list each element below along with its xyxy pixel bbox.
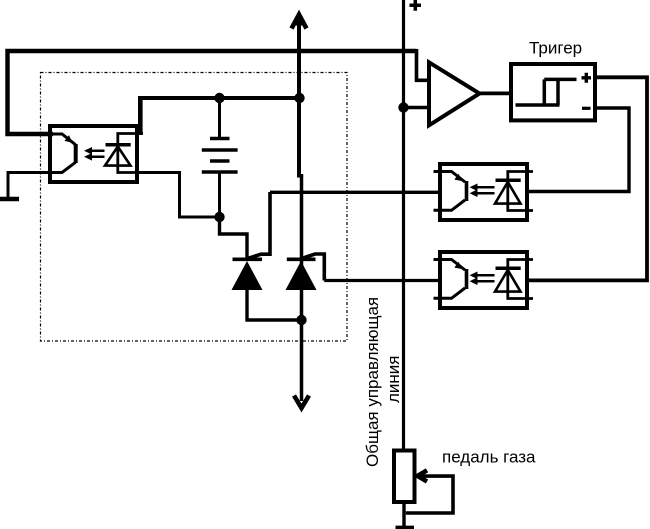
wire main vertical lower segment [300, 174, 304, 401]
wire common control line vertical rail [402, 0, 405, 450]
wire battery node to thyristor VS1 cathode [220, 216, 248, 258]
svg-text:Общая управляющая: Общая управляющая [363, 297, 382, 467]
U3 collector arrow [454, 262, 463, 270]
battery C1 top lead [218, 96, 221, 138]
potentiometer wiper arrow [418, 470, 428, 481]
U1 light arrow 1 [88, 150, 105, 153]
U3 transistor base bar [465, 269, 469, 289]
ground bottom bar [396, 526, 415, 529]
svg-text:линия: линия [384, 355, 403, 403]
U2 collector lead [434, 172, 466, 183]
wire main vertical upper segment [297, 16, 301, 178]
potentiometer bottom lead [402, 502, 405, 526]
arrow up [292, 15, 307, 29]
optocoupler U1 [44, 126, 144, 182]
U1 box [50, 126, 137, 182]
U1 diode bar [106, 143, 131, 147]
wire comparator output [479, 92, 511, 96]
op-amp comparator A1 [429, 62, 480, 125]
wire comparator bottom input [404, 106, 430, 109]
U1 collector lead [44, 134, 76, 145]
node dot A [214, 93, 224, 103]
U2 diode triangle [495, 182, 521, 204]
U2 light arrow 1 [474, 186, 495, 189]
U3 emitter lead [434, 288, 466, 298]
node dot C [214, 212, 224, 222]
U1 emitter lead [44, 162, 76, 172]
U2 light arrow 2 [474, 192, 495, 195]
optocoupler U3 [434, 252, 534, 308]
node dot D [296, 315, 306, 325]
U2 emitter lead [434, 200, 466, 210]
wire comparator top input step [417, 49, 430, 80]
wire trigger minus output to U2 diode [526, 108, 629, 192]
potentiometer R1 body [394, 451, 415, 503]
optocoupler U2 [434, 164, 534, 220]
U3 box [440, 252, 527, 308]
U1 diode triangle [105, 147, 131, 166]
svg-text:педаль газа: педаль газа [442, 448, 536, 467]
U1 transistor base bar [74, 144, 78, 163]
potentiometer wiper wire [406, 476, 453, 513]
minus mark in trigger [582, 107, 591, 110]
trigger box U4 [511, 64, 595, 120]
wire VS1 anode to main line [246, 318, 302, 321]
plus sign power [410, 0, 422, 11]
U1 diode lead with jogs [118, 134, 143, 173]
node dot E [398, 102, 408, 112]
thyristor VS1 cathode bar [233, 257, 263, 261]
thyristor VS1 triangle [232, 261, 263, 290]
plus mark in trigger [582, 73, 592, 83]
U1 light arrow 2 [88, 156, 105, 159]
thyristor VS2 cathode bar [287, 257, 316, 261]
battery C1 bottom lead [218, 172, 221, 217]
thyristor VS2 triangle [286, 261, 317, 290]
U2 box [440, 164, 527, 220]
wire node row y98 [138, 96, 301, 100]
U3 diode bar [496, 267, 521, 271]
U2 transistor base bar [465, 181, 469, 201]
ground left bar [0, 197, 19, 201]
U1 collector arrow [65, 135, 74, 143]
wire gate2 row to optocoupler U3 [324, 279, 438, 282]
U3 collector lead [434, 260, 466, 271]
wire vertical from U1 diode to node row [138, 97, 143, 135]
thyristor VS1 anode lead [245, 288, 248, 322]
thyristor VS1 gate wire [249, 192, 271, 258]
wire U1 emitter to battery node [139, 173, 220, 218]
U2 diode bar [496, 179, 521, 183]
svg-text:Тригер: Тригер [529, 39, 582, 58]
U2 diode lead with jogs [508, 172, 533, 211]
U3 diode triangle [495, 270, 521, 292]
U3 diode lead with jogs [508, 260, 533, 299]
ground left drop [7, 171, 10, 199]
wire U1 emitter external to ground [8, 171, 53, 174]
node dot B [294, 93, 304, 103]
U3 light arrow 2 [474, 280, 495, 283]
arrow down [294, 396, 309, 409]
wire trigger plus output to U3 diode [526, 77, 647, 280]
thyristor VS2 gate wire [303, 254, 325, 281]
U2 collector arrow [454, 174, 463, 182]
dotted boundary box [41, 73, 348, 342]
U3 light arrow 1 [474, 274, 495, 277]
hysteresis symbol [516, 79, 577, 105]
wire gate1 row to optocoupler U2 [270, 191, 438, 194]
wire top rail with left drop to optocoupler U1 [8, 51, 417, 134]
battery C1 plates [202, 139, 238, 173]
